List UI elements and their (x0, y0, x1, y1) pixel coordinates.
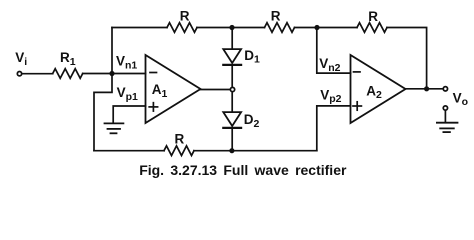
wire R1 to node Vn1 and A1 inverting input (83, 73, 146, 75)
wire A1 + input to ground (113, 106, 145, 123)
node output junction (424, 86, 429, 91)
node D2 bottom junction (229, 148, 234, 153)
minus sign A1 (150, 72, 157, 74)
wire node to D2 anode (231, 93, 233, 112)
wire top rail segment 2 (197, 27, 265, 29)
wire D1 cathode to node (231, 66, 233, 87)
wire node Vn1 down-left to bottom rail (94, 74, 112, 151)
svg-text:R: R (180, 8, 190, 23)
svg-text:R: R (271, 8, 281, 23)
wire top rail segment 1 (112, 27, 167, 29)
wire lower terminal to ground (444, 111, 446, 122)
wire Vi to R1 (23, 73, 53, 75)
output terminal Vo (443, 87, 447, 91)
wire A1 output to diode node (201, 89, 230, 91)
wire D2 cathode to bottom rail (231, 129, 233, 151)
resistor R (first, top) (167, 23, 197, 33)
diode D2 (223, 112, 241, 126)
wire bottom rail up to Vp2 input (317, 106, 351, 151)
resistor R1 (53, 69, 83, 79)
resistor R (bottom) (164, 146, 194, 156)
node between D1 and D2 (open circle) (230, 87, 234, 91)
diode D1 (223, 49, 241, 63)
node Vn2 top junction (314, 25, 319, 30)
wire A2 output to Vo terminal (406, 88, 443, 90)
op-amp A1 (146, 55, 201, 123)
ground (A1 non-inverting) (105, 122, 124, 124)
wire top rail segment 4 and down to output node (387, 28, 427, 89)
svg-text:Fig. 3.27.13 Full wave rectifi: Fig. 3.27.13 Full wave rectifier (139, 162, 347, 178)
resistor R (second, top) (265, 23, 295, 33)
ground (output) (437, 122, 458, 124)
node D1 top junction (229, 25, 234, 30)
wire Vn2 from top rail down to A2 inverting input (317, 28, 351, 74)
minus sign A2 (354, 71, 361, 73)
wire node Vn1 up to top feedback rail (111, 28, 113, 74)
resistor R (third, top) (357, 23, 387, 33)
op-amp A2 (351, 55, 406, 123)
plus sign A1 (149, 106, 157, 108)
output lower terminal (443, 106, 447, 110)
wire bottom rail segment 1 (94, 150, 164, 152)
wire D1 top lead (231, 28, 233, 50)
svg-text:R: R (175, 132, 185, 147)
input terminal Vi (17, 72, 21, 76)
wire top rail segment 3 (295, 27, 358, 29)
node Vn1 junction (109, 71, 114, 76)
wire bottom rail segment 2 (194, 150, 317, 152)
svg-text:R: R (368, 9, 378, 24)
plus sign A2 (353, 105, 361, 107)
